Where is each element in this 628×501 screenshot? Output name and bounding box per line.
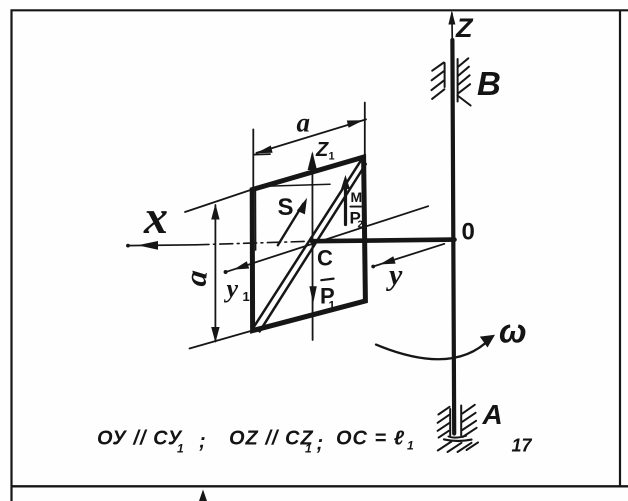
svg-text:ОУ // СУ: ОУ // СУ — [97, 428, 183, 450]
svg-text:x: x — [143, 191, 168, 244]
svg-text:1: 1 — [329, 151, 335, 163]
svg-text:Z: Z — [455, 13, 474, 43]
svg-text:B: B — [477, 65, 501, 102]
svg-text:y: y — [224, 274, 239, 303]
svg-text:;: ; — [317, 433, 324, 455]
svg-text:ОZ // CZ: ОZ // CZ — [229, 428, 314, 450]
svg-text:ОС = ℓ: ОС = ℓ — [336, 428, 405, 450]
svg-text:1: 1 — [305, 442, 312, 456]
svg-text:1: 1 — [407, 439, 414, 453]
svg-text:a: a — [297, 108, 311, 138]
svg-text:Z: Z — [315, 139, 329, 161]
svg-text:M: M — [351, 189, 363, 205]
svg-text:y: y — [386, 259, 403, 292]
svg-text:0: 0 — [462, 219, 475, 246]
svg-text:17: 17 — [512, 436, 533, 456]
svg-text:S: S — [278, 194, 294, 221]
svg-text:A: A — [482, 399, 503, 430]
svg-text:1: 1 — [177, 442, 184, 456]
svg-text:1: 1 — [329, 299, 336, 313]
svg-text:;: ; — [199, 431, 206, 453]
svg-text:2: 2 — [358, 220, 364, 231]
svg-text:C: C — [317, 246, 333, 271]
svg-text:1: 1 — [243, 289, 250, 304]
svg-text:ω: ω — [499, 313, 527, 350]
